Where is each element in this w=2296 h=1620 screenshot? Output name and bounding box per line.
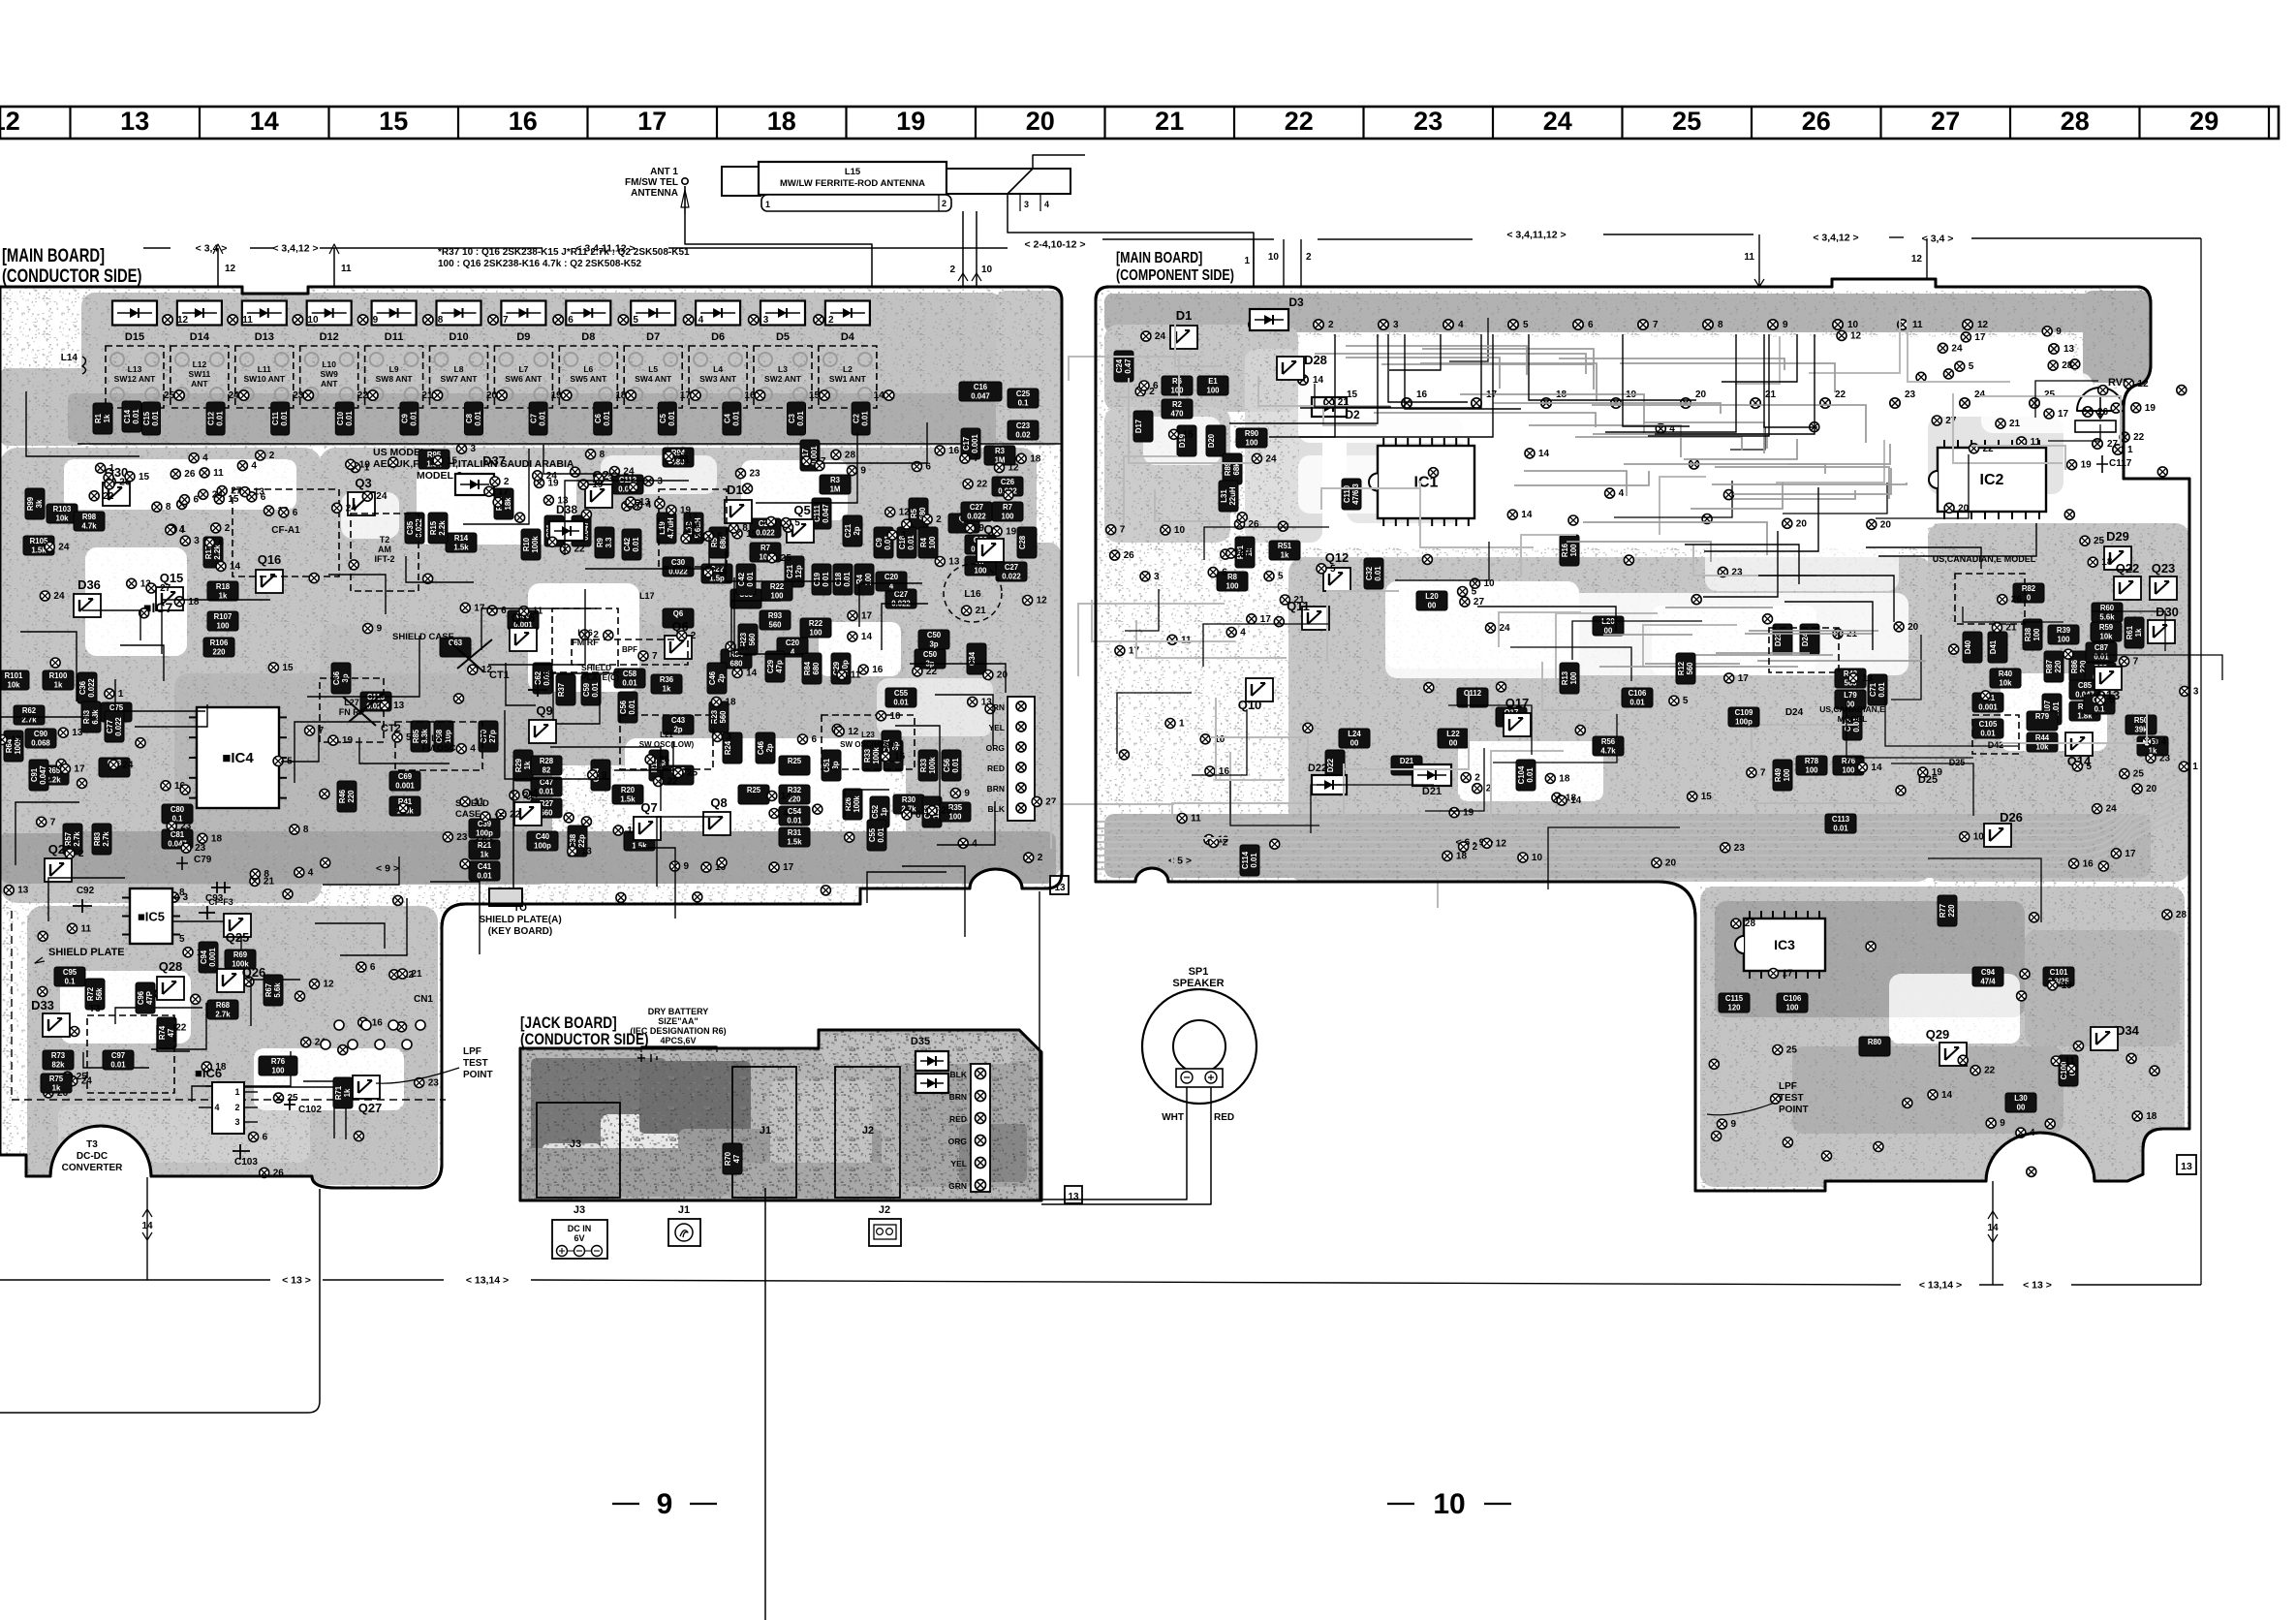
svg-text:0.1: 0.1 (65, 978, 77, 986)
diode D1 (1170, 326, 1197, 349)
svg-text:20: 20 (997, 670, 1008, 681)
svg-text:17: 17 (74, 764, 85, 775)
svg-text:R84: R84 (803, 661, 812, 675)
filter CF-F3 (211, 882, 231, 893)
svg-text:0.022: 0.022 (114, 717, 123, 736)
resistor R41 (389, 796, 420, 816)
svg-text:4: 4 (308, 867, 314, 878)
svg-text:9: 9 (684, 861, 690, 872)
svg-text:C114: C114 (1241, 851, 1250, 869)
transistor Q9 (529, 720, 556, 743)
svg-text:L2: L2 (843, 364, 853, 374)
svg-text:10k: 10k (1999, 679, 2012, 688)
svg-text:22: 22 (2133, 432, 2145, 443)
svg-text:15: 15 (447, 455, 458, 466)
capacitor C48 (663, 765, 694, 785)
svg-text:D14: D14 (190, 331, 210, 343)
svg-text:17: 17 (1974, 332, 1986, 343)
svg-text:C17: C17 (962, 437, 971, 451)
svg-text:D15: D15 (125, 331, 144, 343)
svg-text:13: 13 (948, 557, 960, 568)
svg-text:LPF: LPF (463, 1046, 481, 1057)
svg-text:12: 12 (1008, 463, 1020, 474)
svg-text:23: 23 (293, 390, 304, 401)
svg-text:C58: C58 (623, 670, 637, 678)
svg-text:2.2k: 2.2k (438, 520, 447, 536)
coil L13 (106, 346, 164, 408)
diode D9 (501, 301, 545, 326)
svg-text:7: 7 (652, 651, 658, 662)
capacitor C27 (961, 502, 992, 521)
svg-text:R103: R103 (53, 505, 72, 514)
svg-text:11: 11 (242, 315, 253, 326)
right board black trace elbows (1229, 334, 2036, 650)
diode D38 (549, 521, 584, 541)
svg-text:19: 19 (1932, 767, 1943, 778)
tick 11 into left board (333, 248, 335, 678)
capacitor C18 (897, 527, 916, 558)
svg-text:28: 28 (2062, 360, 2073, 371)
capacitor C78 (99, 758, 130, 777)
svg-text:R4: R4 (919, 537, 928, 547)
resistor R68 (207, 1000, 238, 1019)
svg-text:SPEAKER: SPEAKER (1172, 978, 1224, 989)
svg-text:100k: 100k (531, 536, 540, 553)
left board outline re-stroke (0, 287, 1062, 1188)
capacitor C111 (812, 498, 831, 529)
diode D15 (112, 301, 157, 326)
svg-text:L5: L5 (648, 364, 658, 374)
page number 10 (1387, 1503, 1414, 1505)
svg-text:5.6k: 5.6k (2099, 613, 2115, 622)
svg-text:2: 2 (1328, 320, 1334, 330)
svg-text:C8: C8 (465, 413, 474, 423)
svg-text:C18: C18 (834, 572, 843, 586)
svg-text:C36: C36 (78, 680, 87, 695)
svg-text:7: 7 (50, 817, 56, 827)
svg-text:9: 9 (860, 466, 866, 477)
svg-text:13: 13 (254, 487, 265, 498)
capacitor C58 (614, 669, 645, 688)
svg-text:BPF: BPF (622, 645, 637, 654)
svg-text:R7: R7 (760, 544, 770, 552)
coil L3 (754, 346, 812, 408)
svg-text:C46: C46 (757, 740, 765, 755)
svg-text:R37: R37 (557, 683, 566, 697)
capacitor C9 (874, 527, 893, 558)
svg-text:14: 14 (781, 791, 792, 801)
diode D37 (455, 474, 494, 495)
resistor R84 (721, 649, 752, 669)
link line left board to jack board (1039, 891, 1040, 1199)
capacitor C91 (29, 760, 48, 791)
capacitor C105 (1972, 719, 2003, 738)
svg-text:2.7k: 2.7k (102, 831, 110, 847)
svg-text:16: 16 (372, 1017, 384, 1028)
svg-text:8: 8 (1718, 320, 1723, 330)
svg-text:2: 2 (234, 1103, 239, 1112)
svg-text:C92: C92 (77, 886, 95, 896)
svg-text:24: 24 (623, 467, 635, 478)
svg-text:C79: C79 (194, 855, 212, 865)
svg-text:C6: C6 (594, 413, 603, 423)
svg-text:L3: L3 (778, 364, 788, 374)
svg-text:0.01: 0.01 (951, 758, 960, 773)
svg-text:25: 25 (687, 768, 698, 779)
svg-text:R14: R14 (454, 534, 469, 543)
svg-text:SHIELD CASE: SHIELD CASE (392, 632, 454, 642)
resistor R79 (2027, 711, 2058, 731)
resistor R32 (779, 785, 810, 804)
top interconnect line (right board) (1102, 238, 1274, 240)
svg-text:SW10 ANT: SW10 ANT (243, 374, 285, 384)
jack board outline re-stroke (520, 1030, 1041, 1200)
svg-text:24: 24 (1155, 331, 1166, 342)
svg-text:C106: C106 (1784, 994, 1802, 1003)
svg-text:■IC5: ■IC5 (138, 910, 165, 924)
svg-text:C4: C4 (723, 413, 731, 423)
svg-text:C77: C77 (106, 720, 114, 733)
diode D26 (1984, 824, 2011, 847)
transistor Q10 (1246, 678, 1273, 701)
transistor Q5 (787, 519, 814, 543)
svg-text:■IC6: ■IC6 (195, 1066, 222, 1080)
capacitor C33 (730, 589, 761, 608)
svg-text:BRN: BRN (949, 1092, 967, 1102)
capacitor C11 (271, 402, 290, 435)
svg-text:J2: J2 (879, 1204, 890, 1216)
svg-text:WHT: WHT (1162, 1112, 1184, 1123)
svg-text:4: 4 (1044, 200, 1049, 209)
svg-text:0.01: 0.01 (539, 411, 547, 426)
capacitor C28 (1017, 527, 1037, 558)
svg-text:R40: R40 (1999, 670, 2013, 678)
svg-text:R75: R75 (49, 1075, 64, 1083)
svg-text:R16: R16 (1561, 543, 1569, 557)
svg-text:Q25: Q25 (226, 930, 250, 945)
transistor Q13 (2094, 667, 2122, 690)
svg-text:C97: C97 (111, 1051, 125, 1060)
svg-text:0.01: 0.01 (603, 411, 611, 426)
svg-text:C91: C91 (30, 767, 39, 782)
svg-text:C106: C106 (1629, 689, 1647, 698)
transistor Q7 (634, 817, 661, 840)
svg-text:US,CANADIAN,E: US,CANADIAN,E (1819, 704, 1885, 714)
bottom interconnect line 13 / 13,14 (0, 1279, 270, 1281)
svg-text:2: 2 (593, 630, 599, 640)
resistor R44 (2027, 732, 2058, 752)
resistor R22 (800, 618, 831, 638)
coil L16 dashed circle (944, 564, 1002, 622)
svg-text:4: 4 (202, 453, 208, 464)
right board outline re-stroke (1096, 279, 2189, 1191)
svg-text:R18: R18 (216, 582, 231, 591)
svg-text:C10: C10 (336, 411, 345, 425)
dashed model boxes (1955, 574, 2025, 624)
svg-text:2p: 2p (765, 743, 774, 752)
svg-text:C26: C26 (1001, 478, 1015, 486)
resistor R9 (595, 527, 614, 558)
svg-text:R13: R13 (1561, 670, 1569, 685)
svg-text:C56: C56 (943, 758, 951, 772)
svg-text:1: 1 (118, 689, 124, 700)
capacitor C40 (527, 831, 558, 851)
svg-text:< 3,4,12 >: < 3,4,12 > (1813, 233, 1858, 244)
resistor R4 (918, 527, 938, 558)
svg-text:< 13,14 >: < 13,14 > (1919, 1280, 1962, 1292)
svg-text:C55: C55 (894, 689, 909, 698)
svg-text:0.01: 0.01 (2094, 653, 2109, 662)
svg-text:POINT: POINT (463, 1070, 493, 1080)
svg-text:3k: 3k (35, 499, 44, 508)
svg-text:11: 11 (81, 923, 92, 934)
svg-text:18: 18 (725, 697, 736, 707)
vertical line below jack board (764, 1188, 766, 1620)
svg-text:Q16: Q16 (258, 552, 282, 567)
capacitor C59 (581, 674, 601, 705)
svg-text:D41: D41 (1989, 639, 1998, 654)
svg-text:18: 18 (188, 597, 200, 607)
svg-text:0.01: 0.01 (843, 572, 852, 587)
inductor L79 (1835, 690, 1866, 709)
svg-text:BRN: BRN (987, 784, 1005, 794)
svg-text:0.001: 0.001 (208, 948, 217, 967)
svg-text:D7: D7 (646, 331, 660, 343)
svg-text:DC IN: DC IN (568, 1224, 592, 1233)
svg-text:21: 21 (2009, 419, 2021, 429)
svg-text:0.01: 0.01 (132, 409, 140, 424)
svg-text:5: 5 (794, 518, 800, 529)
svg-text:C90: C90 (34, 730, 48, 738)
resistor R51 (2137, 736, 2168, 756)
resistor R23 (738, 624, 758, 655)
svg-text:SW OSC(HIGH): SW OSC(HIGH) (840, 740, 896, 749)
svg-text:POINT: POINT (1779, 1105, 1809, 1115)
diode D34 (2091, 1027, 2118, 1050)
svg-text:C21: C21 (786, 564, 794, 578)
svg-text:L11: L11 (258, 364, 271, 374)
svg-text:RED: RED (1214, 1112, 1234, 1123)
svg-text:15: 15 (1183, 429, 1195, 440)
svg-text:L14: L14 (61, 353, 78, 363)
svg-text:0.01: 0.01 (632, 537, 640, 552)
svg-text:Q28: Q28 (159, 959, 183, 974)
svg-text:Q3: Q3 (355, 476, 371, 490)
top interconnect line (left board) (143, 247, 171, 249)
svg-text:R77: R77 (1939, 904, 1947, 918)
svg-text:C96: C96 (137, 990, 145, 1005)
svg-text:L28: L28 (431, 733, 447, 743)
svg-text:4.7uH: 4.7uH (667, 517, 675, 539)
svg-text:C2: C2 (853, 413, 861, 423)
diode D6 (696, 301, 740, 326)
transistor Q17 (1504, 713, 1531, 736)
transistor Q25 (224, 914, 251, 937)
svg-text:6: 6 (263, 1132, 268, 1142)
svg-text:20: 20 (1796, 518, 1808, 529)
jack board copper fill (520, 1030, 1041, 1200)
L28 FM OSC box (395, 722, 482, 770)
svg-text:C87: C87 (2094, 643, 2108, 652)
resistor R57 (63, 824, 82, 855)
transistor Q28 (157, 977, 184, 1000)
tick 14 right (1992, 1181, 1994, 1285)
svg-text:5: 5 (1523, 320, 1529, 330)
svg-text:1M: 1M (830, 485, 841, 494)
svg-text:9: 9 (964, 789, 970, 799)
svg-text:14: 14 (141, 1221, 153, 1231)
svg-text:100: 100 (1785, 1004, 1799, 1012)
svg-text:17: 17 (861, 610, 873, 621)
svg-text:15: 15 (282, 663, 294, 673)
capacitor C53 (922, 796, 942, 827)
svg-text:25: 25 (781, 553, 792, 564)
svg-text:26: 26 (1802, 107, 1831, 136)
svg-text:C27: C27 (970, 503, 983, 512)
svg-text:[JACK BOARD]: [JACK BOARD] (520, 1014, 617, 1033)
svg-text:Q29: Q29 (1926, 1027, 1950, 1042)
svg-text:R22: R22 (809, 619, 823, 628)
svg-text:R25: R25 (747, 786, 761, 794)
svg-text:D26: D26 (2000, 810, 2023, 825)
resistor R14 (446, 533, 477, 552)
svg-text:L7: L7 (518, 364, 528, 374)
capacitor C51 (822, 750, 841, 781)
svg-text:0.047: 0.047 (39, 765, 47, 785)
svg-text:R28: R28 (540, 757, 554, 765)
svg-text:SHIELD PLATE(A): SHIELD PLATE(A) (479, 915, 561, 925)
svg-text:28: 28 (2176, 910, 2187, 920)
svg-text:R85: R85 (412, 729, 420, 743)
capacitor C5 (658, 402, 676, 435)
svg-text:D10: D10 (449, 331, 468, 343)
right board vias scatter (1106, 327, 2199, 1177)
svg-text:DRY BATTERY: DRY BATTERY (648, 1007, 709, 1016)
svg-text:0.047: 0.047 (971, 392, 990, 401)
svg-text:13: 13 (1068, 1192, 1079, 1202)
svg-text:82k: 82k (51, 1061, 65, 1070)
svg-text:14: 14 (746, 668, 758, 678)
resistor R37 (556, 674, 575, 705)
svg-text:00: 00 (2017, 1104, 2026, 1112)
resistor R67 (264, 975, 283, 1006)
svg-text:C9: C9 (400, 413, 409, 423)
svg-text:4: 4 (783, 809, 789, 820)
pad row between diodes (163, 315, 189, 326)
svg-text:MW/LW FERRITE-ROD ANTENNA: MW/LW FERRITE-ROD ANTENNA (780, 178, 925, 189)
svg-text:R49: R49 (1774, 767, 1783, 782)
svg-text:D11: D11 (385, 331, 404, 343)
svg-text:R38: R38 (2024, 627, 2032, 641)
svg-text:SW12 ANT: SW12 ANT (114, 374, 156, 384)
svg-text:23: 23 (1734, 843, 1746, 854)
svg-text:Q6: Q6 (673, 609, 684, 618)
diode D4 (825, 301, 870, 326)
svg-text:560: 560 (1686, 662, 1694, 675)
transistor Q22 (2114, 576, 2141, 600)
svg-text:L23: L23 (861, 731, 875, 739)
svg-text:1: 1 (109, 463, 115, 474)
svg-text:IC2: IC2 (1980, 472, 2004, 488)
inductor Q17 (1496, 707, 1527, 727)
svg-text:12: 12 (1037, 596, 1048, 607)
svg-text:2p: 2p (853, 526, 861, 535)
transistor Q14 (2065, 732, 2093, 756)
svg-text:R6: R6 (1172, 377, 1183, 386)
diode D41 (1988, 632, 2007, 663)
svg-text:J2: J2 (862, 1125, 874, 1137)
svg-text:C27: C27 (894, 590, 908, 599)
svg-text:24: 24 (2106, 804, 2118, 815)
svg-text:0.01: 0.01 (539, 788, 554, 796)
jack J1 outline (732, 1067, 796, 1198)
svg-text:9: 9 (978, 523, 984, 534)
svg-text:1.5k: 1.5k (453, 544, 469, 552)
svg-text:C51: C51 (822, 758, 831, 772)
resistor R86 (2069, 651, 2089, 682)
svg-text:14: 14 (230, 561, 241, 572)
svg-text:1k: 1k (219, 592, 228, 601)
svg-text:5: 5 (1683, 696, 1689, 706)
svg-text:3p: 3p (831, 761, 840, 769)
svg-text:5: 5 (179, 934, 185, 945)
svg-text:14: 14 (1521, 510, 1533, 520)
svg-text:D36: D36 (78, 577, 101, 592)
svg-text:17: 17 (11, 735, 22, 746)
svg-text:11: 11 (1912, 320, 1923, 330)
transistor Q4 (514, 802, 542, 826)
svg-text:0.01: 0.01 (591, 682, 600, 698)
svg-text:2.7k: 2.7k (215, 1011, 231, 1019)
svg-text:0.01: 0.01 (151, 411, 160, 426)
svg-text:14: 14 (1941, 1090, 1953, 1101)
svg-text:0.01: 0.01 (1374, 566, 1382, 581)
svg-text:C55: C55 (868, 827, 877, 842)
resistor R46 (337, 781, 357, 812)
svg-text:25: 25 (1672, 107, 1701, 136)
capacitor C34 (967, 643, 986, 674)
svg-text:4.7k: 4.7k (1600, 747, 1616, 756)
resistor R31 (779, 827, 810, 847)
svg-text:13: 13 (1862, 673, 1874, 684)
svg-text:10: 10 (890, 711, 902, 722)
capacitor C21 (785, 556, 804, 587)
svg-text:SW11: SW11 (189, 369, 211, 379)
svg-text:ANT: ANT (321, 379, 338, 389)
resistor R7 (750, 543, 781, 562)
resistor R56 (1593, 736, 1624, 756)
diode D12 (307, 301, 352, 326)
capacitor C51 (882, 731, 901, 762)
svg-text:10: 10 (1433, 1488, 1465, 1520)
capacitor C24 (1114, 351, 1133, 382)
svg-text:5.6k: 5.6k (273, 982, 282, 998)
svg-text:100: 100 (1245, 439, 1258, 448)
svg-text:R39: R39 (2057, 626, 2071, 635)
inductor L20 (1593, 616, 1624, 636)
svg-text:17: 17 (680, 390, 692, 401)
svg-text:21: 21 (1293, 595, 1305, 606)
svg-text:24: 24 (212, 489, 224, 500)
right board texture speckle (1096, 287, 2194, 1192)
svg-text:9: 9 (2056, 327, 2062, 337)
svg-text:19: 19 (551, 390, 563, 401)
svg-text:10: 10 (1174, 525, 1186, 536)
svg-text:0.01: 0.01 (787, 817, 802, 826)
svg-text:18: 18 (2101, 557, 2113, 568)
svg-text:C105: C105 (1979, 720, 1998, 729)
svg-text:1: 1 (2192, 762, 2198, 772)
